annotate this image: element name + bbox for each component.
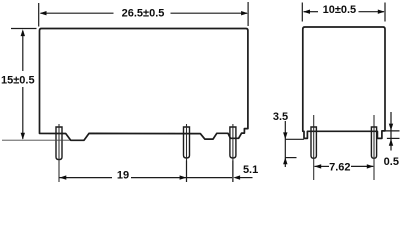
dimension 5.1: arrowhead pointing left at pin 3 — [233, 175, 240, 179]
dimension 19: dimension line right segment — [131, 177, 232, 179]
relay side view: pin A lead — [311, 127, 316, 158]
pin 1 centerline — [58, 124, 60, 182]
dimension 15±0.5: bottom extension line — [2, 139, 70, 141]
dimension 10±0.5: left arrowhead — [303, 10, 310, 14]
relay side view: case body outline — [303, 27, 385, 138]
svg-text:0.5: 0.5 — [384, 156, 399, 168]
dimension 7.62: right arrowhead — [367, 164, 374, 168]
dimension 7.62: dimension line left segment — [314, 165, 329, 167]
dimension 0.5: dimension line — [390, 112, 392, 151]
dimension 3.5: dimension line — [284, 121, 286, 167]
relay front view: pin 3 lead — [230, 127, 236, 158]
dimension 3.5: lower extension line to pin tip — [285, 157, 296, 159]
dimension 10±0.5: dimension line right segment — [359, 11, 385, 13]
dimension 7.62: left arrowhead — [314, 164, 321, 168]
dimension 19: dimension line left segment — [59, 177, 112, 179]
dimension 15±0.5: dimension line upper segment — [22, 31, 24, 71]
dimension 10±0.5: left extension line — [301, 3, 303, 22]
relay front view: pin 2 lead — [184, 127, 190, 158]
dimension 15±0.5: dimension line lower segment — [22, 87, 24, 139]
dimension 0.5: up arrowhead — [389, 139, 393, 146]
dimension 3.5: up arrowhead — [283, 157, 287, 164]
dimension 15±0.5: top extension line — [11, 28, 37, 30]
dimension 0.5: down arrowhead — [389, 124, 393, 131]
dimension 5.1: arrow tail line — [240, 177, 253, 179]
dimension 26.5±0.5: right arrowhead — [241, 11, 248, 15]
svg-text:19: 19 — [117, 169, 129, 181]
pin 3 centerline — [232, 124, 234, 182]
dimension 19: right arrowhead — [180, 175, 187, 179]
relay side view: pin B lead — [371, 127, 376, 158]
svg-text:15±0.5: 15±0.5 — [1, 74, 35, 86]
dimension 26.5±0.5: dimension line right segment — [171, 12, 248, 14]
dimension 0.5: lower extension line — [387, 137, 400, 139]
relay front view: pin 1 lead — [56, 127, 62, 160]
svg-text:10±0.5: 10±0.5 — [323, 4, 357, 16]
dimension 26.5±0.5: dimension line left segment — [41, 12, 114, 14]
dimension 19: extension line from pin 2 — [186, 161, 188, 183]
dimension 5.1: extension line from pin 3 — [232, 161, 234, 183]
dimension 3.5: upper extension line to standoff — [285, 138, 304, 140]
relay front view: case body outline — [40, 29, 248, 141]
dimension 15±0.5: bottom arrowhead — [21, 133, 25, 140]
dimension 26.5±0.5: left arrowhead — [40, 11, 47, 15]
dimension 10±0.5: dimension line left segment — [304, 11, 319, 13]
svg-text:5.1: 5.1 — [243, 164, 258, 176]
side view pin A centerline — [313, 115, 315, 180]
svg-text:7.62: 7.62 — [329, 162, 350, 174]
dimension 26.5±0.5: left extension line — [38, 3, 40, 27]
dimension 7.62: dimension line right segment — [351, 165, 373, 167]
dimension 3.5: down arrowhead — [283, 132, 287, 139]
pin 2 centerline — [186, 124, 188, 182]
dimension 10±0.5: right arrowhead — [378, 10, 385, 14]
svg-text:3.5: 3.5 — [273, 111, 288, 123]
dimension 26.5±0.5: right extension line — [247, 2, 249, 26]
dimension 0.5: upper extension line — [382, 130, 400, 132]
dimension 15±0.5: top arrowhead — [21, 29, 25, 36]
side view pin B centerline — [373, 115, 375, 180]
dimension 10±0.5: right extension line — [384, 3, 386, 22]
svg-text:26.5±0.5: 26.5±0.5 — [122, 8, 165, 20]
dimension 19: left arrowhead — [60, 175, 67, 179]
